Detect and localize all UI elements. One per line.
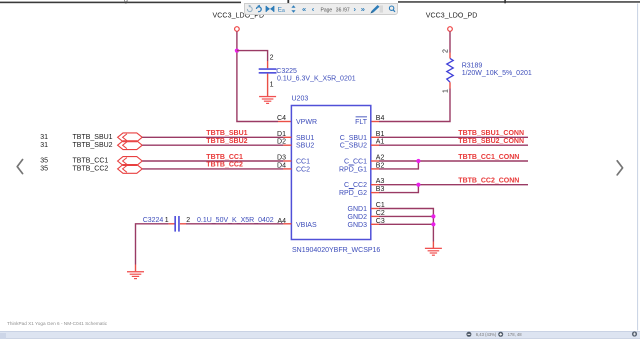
nav chevron next page [617, 161, 622, 175]
status tab title ThinkPad X1 Yoga Gen 6 [7, 321, 107, 326]
capacitor C3224 plates [174, 216, 179, 232]
svg-text:GND3: GND3 [348, 222, 368, 229]
wire RPD_G1 up to C_CC1 [379, 161, 418, 169]
wire TBTB_SBU2 to chip [142, 144, 283, 146]
pin stub C_CC2 (A3) [371, 184, 379, 186]
op chip U203 body [291, 106, 370, 240]
pin stub GND2 (C2) [371, 215, 379, 217]
wire GND3 to ground rail [379, 223, 433, 225]
ground symbol under C3225 [259, 96, 276, 104]
floating pdf toolbar [244, 3, 398, 15]
status right icon [632, 331, 637, 336]
toolbar icon fit to window [266, 6, 275, 12]
pin name RPD_G2 [339, 188, 367, 197]
svg-text:C_CC1: C_CC1 [344, 159, 367, 166]
svg-text:C_CC2: C_CC2 [344, 182, 367, 189]
junction node at C3225 branch [235, 49, 239, 53]
pin stub RPD_G2 (B3) [371, 192, 379, 194]
pin stub CC1 (D3) [283, 160, 291, 162]
wire: VCC3 left vertical down to VPWR row [237, 31, 278, 121]
svg-text:FLT: FLT [355, 119, 368, 126]
wire: C3225 pin1 to ground [267, 74, 269, 96]
svg-text:RPD_G2: RPD_G2 [339, 190, 367, 197]
svg-text:»: » [361, 5, 365, 14]
status zoom icon [466, 332, 471, 337]
svg-text:C3225: C3225 [276, 68, 297, 75]
svg-text:a: a [282, 8, 285, 14]
junction node on C_CC1 [416, 159, 420, 163]
pin name FLT with overline [355, 116, 368, 126]
svg-text:1: 1 [443, 89, 450, 93]
ground symbol under GND rail [425, 248, 442, 256]
pin stub R3189 pin1 [449, 82, 451, 88]
svg-text:TBTB_CC2: TBTB_CC2 [73, 166, 109, 173]
svg-text:2: 2 [270, 55, 274, 62]
bottom status bar [0, 331, 640, 339]
svg-text:35: 35 [40, 166, 48, 173]
svg-text:1: 1 [165, 217, 169, 224]
offpage connector SBU1 [118, 133, 143, 142]
pin name RPD_G1 [339, 165, 367, 174]
svg-text:GND1: GND1 [348, 206, 368, 213]
wire TBTB_CC2 to chip [142, 168, 283, 170]
pin stub SBU1 (D1) [283, 136, 291, 138]
svg-text:6,43 (43%): 6,43 (43%) [476, 332, 497, 337]
svg-text:TBTB_CC1_CONN: TBTB_CC1_CONN [458, 154, 519, 161]
svg-text:TBTB_SBU1: TBTB_SBU1 [73, 134, 113, 141]
svg-text:Page: Page [321, 8, 333, 14]
svg-text:›: › [354, 5, 357, 14]
sheet top border line [0, 1, 640, 3]
pin stub C_SBU2 (A1) [371, 144, 379, 146]
svg-text:TBTB_SBU1_CONN: TBTB_SBU1_CONN [458, 130, 524, 137]
wire: R3189 to FLT row [379, 89, 450, 122]
wire RPD_G2 up to C_CC2 [379, 185, 418, 193]
svg-text:36 /97: 36 /97 [336, 8, 350, 14]
svg-text:VCC3_LDO_PD: VCC3_LDO_PD [426, 13, 478, 20]
svg-text:1: 1 [270, 82, 274, 89]
svg-text:35: 35 [40, 158, 48, 165]
svg-text:31: 31 [40, 142, 48, 149]
wire TBTB_CC2_CONN [379, 184, 528, 186]
right panel edge line [637, 4, 638, 331]
junction node on C_CC2 [416, 183, 420, 187]
svg-text:GND2: GND2 [348, 214, 368, 221]
status position icon [498, 332, 503, 337]
svg-text:g: g [124, 0, 128, 4]
wire ground to C3224 pin1 [136, 224, 169, 265]
svg-text:VBIAS: VBIAS [296, 222, 317, 229]
svg-text:VPWR: VPWR [296, 119, 317, 126]
svg-text:C_SBU1: C_SBU1 [340, 135, 367, 142]
svg-text:2: 2 [186, 217, 190, 224]
svg-text:CC2: CC2 [296, 166, 310, 173]
junction node GND3 [431, 222, 435, 226]
sheet zone tick 1 [287, 0, 289, 4]
wire GND1 to ground rail [379, 209, 433, 242]
wire TBTB_CC1_CONN [379, 160, 528, 162]
wire TBTB_SBU1 to chip [142, 136, 283, 138]
svg-text:U203: U203 [292, 95, 309, 102]
svg-text:CC1: CC1 [296, 159, 310, 166]
wire: VCC3 right down to resistor [449, 31, 451, 52]
svg-text:TBTB_SBU2: TBTB_SBU2 [73, 142, 113, 149]
svg-text:TBTB_SBU1: TBTB_SBU1 [206, 130, 247, 137]
svg-text:SBU2: SBU2 [296, 143, 314, 150]
svg-text:TBTB_CC1: TBTB_CC1 [73, 158, 109, 165]
pin stub VBIAS (A4) [283, 223, 291, 225]
offpage connector CC1 [118, 157, 143, 166]
pin stub C3225 pin2 [267, 61, 269, 68]
pin stub R3189 pin2 [449, 53, 451, 59]
pin stub RPD_G1 (B2) [371, 168, 379, 170]
svg-text:2: 2 [443, 49, 450, 53]
capacitor C3225 plates [259, 68, 277, 73]
ground symbol under C3224 [127, 271, 144, 279]
svg-text:B4: B4 [376, 115, 385, 122]
wire TBTB_CC1 to chip [142, 160, 283, 162]
toolbar icon search magnifier [389, 6, 395, 12]
junction node GND2 [431, 214, 435, 218]
sheet zone tick 2 [504, 0, 506, 3]
pin stub SBU2 (D2) [283, 144, 291, 146]
offpage connector CC2 [118, 165, 143, 174]
svg-text:SN1904020YBFR_WCSP16: SN1904020YBFR_WCSP16 [292, 247, 380, 254]
pin stub C_CC1 (A2) [371, 160, 379, 162]
svg-text:C_SBU2: C_SBU2 [340, 143, 367, 150]
svg-text:RPD_G1: RPD_G1 [339, 166, 367, 173]
toolbar icon rotate right [256, 5, 261, 12]
wire: branch to C3225 [237, 51, 268, 61]
toolbar icon rotate left [247, 5, 252, 12]
svg-text:R3189: R3189 [462, 63, 483, 70]
offpage connector SBU2 [118, 141, 143, 150]
svg-text:SBU1: SBU1 [296, 135, 314, 142]
nav chevron previous page [17, 160, 22, 174]
power symbol circle (right) [448, 27, 453, 32]
toolbar pen dropdown box [380, 6, 383, 13]
svg-text:1/20W_10K_5%_0201: 1/20W_10K_5%_0201 [462, 70, 532, 77]
svg-text:«: « [302, 5, 306, 14]
svg-text:0.1U_50V_K_X5R_0402: 0.1U_50V_K_X5R_0402 [197, 217, 274, 224]
svg-text:TBTB_CC2: TBTB_CC2 [206, 162, 243, 169]
wire C3224 pin2 to VBIAS [186, 223, 283, 225]
toolbar icon scroll up down [291, 5, 295, 13]
toolbar icon text size Ea [278, 7, 285, 14]
wire TBTB_SBU2_CONN [379, 144, 528, 146]
svg-text:TBTB_CC1: TBTB_CC1 [206, 154, 243, 161]
pin stub C3224 pin2 [180, 223, 186, 225]
status bar corner box [0, 333, 6, 339]
wire TBTB_SBU1_CONN [379, 136, 528, 138]
svg-text:31: 31 [40, 134, 48, 141]
svg-text:178, 48: 178, 48 [508, 332, 523, 337]
pin stub GND1 (C1) [371, 208, 379, 210]
svg-text:TBTB_SBU2_CONN: TBTB_SBU2_CONN [458, 138, 524, 145]
pin stub FLT (B4) [371, 121, 379, 123]
wire GND2 to ground rail [379, 215, 433, 217]
svg-text:‹: ‹ [312, 5, 315, 14]
pin stub CC2 (D4) [283, 168, 291, 170]
svg-text:C4: C4 [277, 115, 286, 122]
resistor R3189 zigzag body [447, 58, 453, 82]
pin stub C3224 pin1 [169, 223, 175, 225]
pin stub C_SBU1 (B1) [371, 136, 379, 138]
pin stub GND3 (C3) [371, 223, 379, 225]
svg-text:0.1U_6.3V_K_X5R_0201: 0.1U_6.3V_K_X5R_0201 [277, 76, 356, 83]
svg-text:TBTB_SBU2: TBTB_SBU2 [206, 138, 247, 145]
pin stub VPWR (C4) [278, 121, 291, 123]
toolbar icon annotate pen [370, 5, 379, 14]
svg-text:TBTB_CC2_CONN: TBTB_CC2_CONN [458, 177, 519, 184]
svg-text:C3224: C3224 [143, 217, 164, 224]
power symbol circle (left) [235, 27, 240, 32]
